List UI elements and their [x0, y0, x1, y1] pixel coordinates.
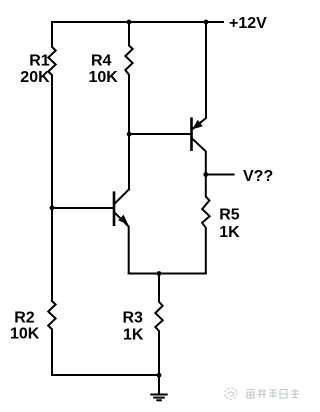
svg-text:R5: R5 [219, 207, 240, 224]
watermark text 硬件笔记本 [247, 389, 300, 398]
node dot top rail / R4 [127, 20, 132, 25]
resistor R5 (x=205.8) [202, 175, 210, 274]
transistor Q1 emitter slant and down wire [114, 212, 128, 273]
node dot top rail / Q2 emitter [204, 20, 209, 25]
watermark logo [225, 388, 237, 399]
resistor R3 (x=159) [155, 274, 162, 376]
transistor Q2 base bar [190, 119, 193, 150]
node dot V?? [203, 172, 208, 177]
transistor Q1 emitter arrow [118, 215, 128, 225]
ground bar 3 [157, 399, 161, 401]
wire bottom middle horizontal (emitter to R5 bottom) [129, 273, 206, 275]
node dot R4 / Q2 base [127, 132, 132, 137]
svg-text:V??: V?? [243, 168, 273, 185]
ground stub [158, 375, 160, 394]
ground bar 1 [151, 394, 166, 396]
node dot ground junction [157, 373, 162, 378]
wire Q1 base wire [52, 207, 113, 209]
wire V?? output node [206, 174, 234, 176]
transistor Q2 collector slant and down wire [192, 138, 206, 175]
transistor Q1 base bar [113, 193, 116, 225]
node dot R1/R2/Q1 base [50, 205, 55, 210]
svg-text:R2: R2 [14, 310, 35, 327]
resistor R4 (middle branch x=129) [125, 22, 132, 189]
svg-text:10K: 10K [10, 326, 40, 343]
svg-text:R4: R4 [91, 53, 112, 70]
svg-text:1K: 1K [219, 224, 240, 241]
transistor Q1 collector slant [114, 189, 129, 204]
transistor Q2 emitter arrow [192, 120, 203, 129]
ground bar 2 [154, 397, 164, 399]
wire top +12V rail [52, 21, 223, 23]
svg-text:R3: R3 [123, 310, 144, 327]
resistor R1 (with leads, left branch x=52) [48, 22, 55, 301]
wire Q2 base wire from R4/Q1 collector node [129, 133, 191, 135]
svg-text:1K: 1K [123, 327, 144, 344]
transistor Q2 emitter wire from +12V rail and slant [192, 22, 206, 129]
svg-text:10K: 10K [89, 69, 119, 86]
svg-text:20K: 20K [20, 69, 50, 86]
svg-text:+12V: +12V [229, 15, 267, 32]
resistor R2 (continues left branch to bottom wire) [48, 301, 159, 375]
node dot R3 top [157, 271, 162, 276]
svg-text:R1: R1 [29, 53, 50, 70]
